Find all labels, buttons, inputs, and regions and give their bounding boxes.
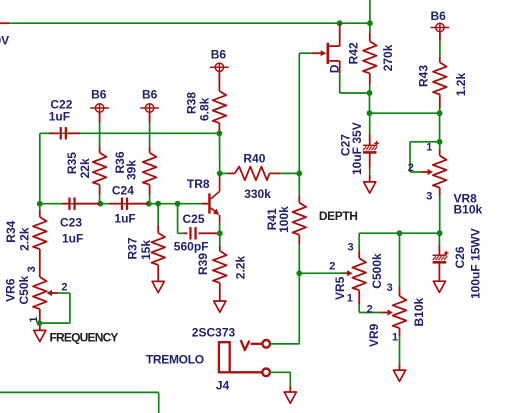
wire JFET source down bbox=[339, 73, 341, 93]
wire C25 left lead bbox=[184, 232, 188, 234]
svg-text:B6: B6 bbox=[142, 87, 158, 101]
svg-text:1: 1 bbox=[347, 293, 353, 305]
junction main row / R34 bbox=[37, 201, 43, 207]
wire C22 left lead bbox=[49, 132, 58, 134]
svg-text:2.2k: 2.2k bbox=[233, 256, 247, 280]
wire top rail riser bbox=[369, 0, 371, 23]
svg-text:B6: B6 bbox=[211, 48, 227, 62]
svg-text:3: 3 bbox=[26, 266, 38, 272]
potentiometer VR9 bbox=[399, 233, 401, 287]
wire C27 row to R43 bbox=[370, 112, 440, 114]
wire top 0V rail bbox=[9, 22, 370, 24]
svg-text:R34: R34 bbox=[4, 220, 18, 242]
junction main row / R37 bbox=[155, 201, 161, 207]
potentiometer VR5 bbox=[358, 233, 360, 250]
wire 0V red stub top-left bbox=[0, 22, 9, 24]
wire R43 junction to VR8 bbox=[439, 113, 441, 142]
svg-text:3: 3 bbox=[387, 282, 393, 294]
wiper arrow VR8 bbox=[422, 171, 429, 173]
potentiometer VR6 bbox=[33, 277, 47, 309]
potentiometer VR8 bbox=[439, 142, 441, 149]
svg-text:TR8: TR8 bbox=[187, 177, 210, 191]
svg-text:C25: C25 bbox=[183, 212, 205, 226]
ground under R37 bbox=[152, 281, 164, 292]
wire VR8 wiper loop bbox=[410, 141, 440, 143]
junction R43 bottom bbox=[437, 110, 443, 116]
resistor R37 bbox=[157, 204, 159, 225]
pin circle J4 sleeve bbox=[262, 369, 270, 377]
wire C25 right lead bbox=[199, 232, 220, 234]
resistor R38 bbox=[218, 72, 220, 92]
wire B6 supply 2 to resistor bbox=[149, 123, 151, 147]
resistor R43 bbox=[439, 32, 441, 41]
wire VR6 wiper loop bbox=[58, 292, 70, 294]
junction C27 / R43 row bbox=[367, 110, 373, 116]
svg-text:330k: 330k bbox=[244, 187, 271, 201]
svg-text:2: 2 bbox=[367, 303, 373, 315]
svg-text:1uF: 1uF bbox=[62, 232, 83, 246]
svg-text:R38: R38 bbox=[185, 92, 199, 114]
svg-text:2: 2 bbox=[408, 162, 414, 174]
capacitor C27 bbox=[369, 113, 371, 134]
ground under VR9 bbox=[393, 370, 405, 381]
svg-text:100k: 100k bbox=[277, 206, 291, 233]
svg-text:R35: R35 bbox=[65, 152, 79, 174]
resistor R39 bbox=[219, 233, 221, 246]
svg-text:2: 2 bbox=[61, 282, 67, 294]
capacitor C26 plates bbox=[433, 254, 447, 256]
junction top rail / drain bbox=[337, 20, 343, 26]
B6 supply 4 bbox=[431, 23, 450, 31]
wiper arrow VR6 bbox=[51, 292, 58, 294]
capacitor C27 plates bbox=[363, 144, 377, 146]
svg-text:15k: 15k bbox=[139, 240, 153, 260]
svg-text:TREMOLO: TREMOLO bbox=[146, 353, 204, 367]
wire B6 supply 1 pin stub bbox=[99, 112, 101, 122]
switch tip contact J4 bbox=[241, 340, 250, 350]
wire R38 junction to TR8 collector bbox=[219, 133, 221, 173]
svg-text:R39: R39 bbox=[196, 253, 210, 275]
svg-text:D: D bbox=[328, 64, 342, 73]
svg-text:6.8k: 6.8k bbox=[198, 97, 212, 121]
wire C24 left lead bbox=[110, 203, 121, 205]
pin circle J4 tip bbox=[262, 340, 270, 348]
wire B6 supply 2 pin stub bbox=[149, 112, 151, 122]
resistor R40 bbox=[220, 172, 228, 174]
svg-text:1: 1 bbox=[392, 332, 398, 344]
ground under C26 bbox=[433, 281, 445, 292]
wire JFET gate bbox=[298, 53, 300, 173]
svg-text:R40: R40 bbox=[243, 151, 265, 165]
svg-text:C26: C26 bbox=[453, 246, 467, 268]
junction main row / R35 bbox=[97, 201, 103, 207]
wire VR5 pin1 to VR9 wiper bbox=[359, 312, 382, 314]
wire J4 sleeve to ground bbox=[270, 371, 290, 373]
svg-text:3: 3 bbox=[426, 191, 432, 203]
junction rail / VR9 bbox=[397, 230, 403, 236]
wire C23 right lead bbox=[76, 203, 100, 205]
junction DEPTH net bbox=[296, 270, 302, 276]
wire main row bbox=[40, 203, 208, 205]
svg-text:R42: R42 bbox=[347, 42, 361, 64]
wire C24 right lead bbox=[129, 203, 149, 205]
B6 supply 2 bbox=[140, 104, 159, 112]
junction R38 bottom / C22 row bbox=[217, 130, 223, 136]
ground under J4 bbox=[284, 392, 296, 403]
wire R42 junction down bbox=[369, 93, 371, 113]
resistor R35 bbox=[99, 146, 101, 152]
ground under R39 bbox=[214, 301, 226, 312]
capacitor C26 bbox=[438, 233, 440, 245]
ground under C27 bbox=[364, 182, 376, 193]
connector J4 bbox=[219, 342, 230, 372]
junction R42 / JFET source bbox=[367, 90, 373, 96]
svg-text:FREQUENCY: FREQUENCY bbox=[50, 330, 119, 344]
svg-text:10uF 35V: 10uF 35V bbox=[350, 122, 364, 175]
wire R34 to VR6 pin 3 bbox=[39, 249, 41, 277]
junction TR8 collector / R40 bbox=[217, 171, 223, 177]
svg-text:C24: C24 bbox=[112, 184, 134, 198]
svg-text:3: 3 bbox=[348, 242, 354, 254]
wire C25 branch bbox=[177, 204, 179, 234]
transistor D (JFET) bbox=[327, 43, 330, 64]
svg-text:DEPTH: DEPTH bbox=[319, 209, 358, 223]
svg-text:1: 1 bbox=[426, 142, 432, 154]
wire C22 row bbox=[40, 132, 220, 134]
svg-text:22k: 22k bbox=[78, 158, 92, 178]
junction VR8 pin1 bbox=[437, 139, 443, 145]
resistor R34 bbox=[39, 204, 41, 210]
wire B6 supply 1 to resistor bbox=[99, 123, 101, 147]
svg-text:VR6: VR6 bbox=[4, 278, 18, 302]
svg-text:2SC373: 2SC373 bbox=[192, 325, 236, 339]
svg-text:100uF 15WV: 100uF 15WV bbox=[469, 228, 483, 299]
svg-text:C500k: C500k bbox=[370, 253, 384, 289]
svg-text:C23: C23 bbox=[60, 216, 82, 230]
svg-text:1uF: 1uF bbox=[114, 212, 135, 226]
svg-text:J4: J4 bbox=[216, 379, 230, 393]
resistor R36 bbox=[149, 146, 151, 152]
resistor R41 bbox=[298, 196, 300, 203]
svg-text:B10k: B10k bbox=[454, 203, 483, 217]
wire J4 tip to DEPTH column bbox=[270, 343, 299, 345]
svg-text:560pF: 560pF bbox=[174, 239, 209, 253]
junction main row / R36 bbox=[146, 201, 152, 207]
wire R41 bottom bbox=[298, 173, 300, 195]
resistor R42 bbox=[369, 23, 371, 32]
wire left branch vertical bbox=[39, 133, 41, 203]
wire bottom-left loop bbox=[0, 391, 159, 393]
svg-text:39k: 39k bbox=[125, 160, 139, 180]
junction TR8 emitter / C25 / R39 bbox=[217, 230, 223, 236]
svg-text:VR9: VR9 bbox=[367, 323, 381, 347]
capacitor C25 bbox=[190, 227, 195, 239]
capacitor C24 bbox=[122, 198, 127, 210]
wire TR8 base stub bbox=[202, 203, 208, 205]
svg-text:270k: 270k bbox=[381, 44, 395, 71]
svg-text:C50k: C50k bbox=[17, 275, 31, 304]
wire C22 right lead bbox=[68, 132, 80, 134]
ground under VR6 bbox=[34, 330, 46, 341]
svg-text:0V: 0V bbox=[0, 34, 9, 48]
wire VR6 pin 1 to ground bbox=[39, 309, 41, 330]
capacitor C22 bbox=[61, 127, 66, 139]
capacitor C23 bbox=[69, 198, 74, 210]
transistor TR8 bbox=[208, 193, 211, 213]
svg-text:B10k: B10k bbox=[412, 297, 426, 326]
svg-text:2.2k: 2.2k bbox=[17, 227, 31, 251]
junction R40 / R41 / gate bbox=[296, 171, 302, 177]
svg-text:1.2k: 1.2k bbox=[454, 73, 468, 97]
svg-text:R37: R37 bbox=[125, 237, 139, 259]
junction rail / C26 bbox=[437, 230, 443, 236]
wire DEPTH to VR5 wiper bbox=[299, 272, 345, 274]
svg-text:R43: R43 bbox=[417, 65, 431, 87]
svg-text:1uF: 1uF bbox=[49, 109, 70, 123]
junction main row / C25 branch bbox=[175, 201, 181, 207]
wire DEPTH down to J4 tip bbox=[298, 273, 300, 344]
wire VR rail bbox=[359, 232, 439, 234]
wire C23 left lead bbox=[62, 203, 68, 205]
B6 supply 1 bbox=[90, 104, 109, 112]
B6 supply 3 bbox=[210, 63, 229, 71]
svg-text:VR5: VR5 bbox=[333, 276, 347, 300]
svg-text:2: 2 bbox=[329, 261, 335, 273]
junction top rail / R42 bbox=[367, 20, 373, 26]
svg-text:B6: B6 bbox=[91, 87, 107, 101]
junction VR6 pin1 bbox=[37, 320, 43, 326]
svg-text:B6: B6 bbox=[431, 9, 447, 23]
